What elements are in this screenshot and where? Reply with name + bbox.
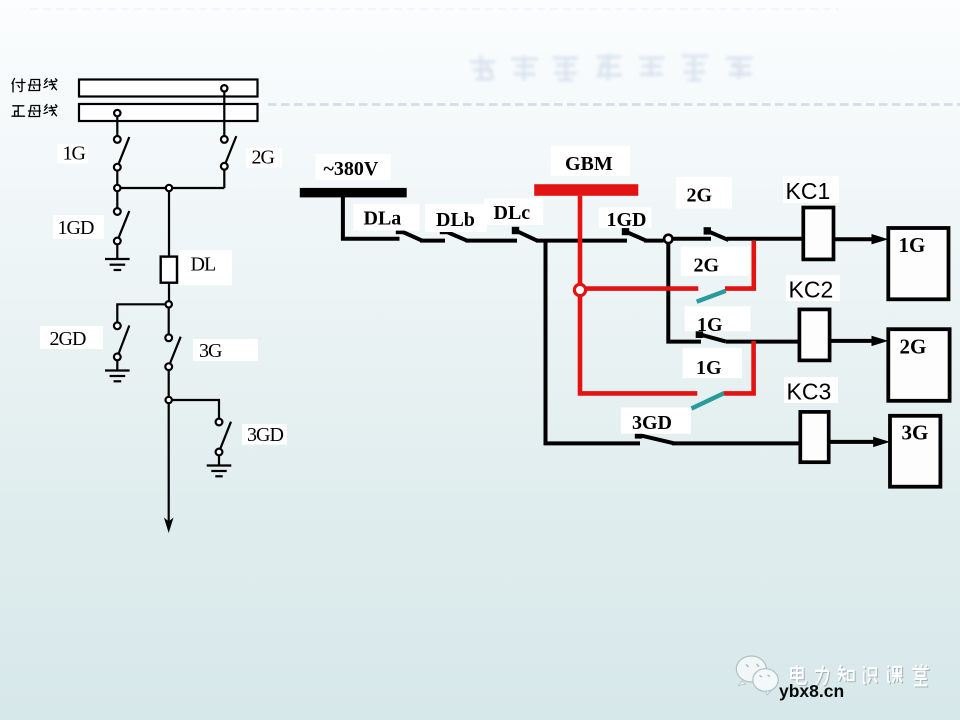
node D junction above feeder (166, 397, 172, 403)
wire from 380V bus (343, 196, 400, 239)
node B junction middle (166, 185, 172, 191)
wire 3GD contact to KC3 (672, 441, 800, 445)
disconnector 1G (114, 136, 129, 185)
svg-text:KC3: KC3 (787, 379, 832, 405)
breaker contact DLb (440, 227, 468, 241)
drop wire from node to row 2 (668, 243, 701, 342)
svg-text:KC2: KC2 (789, 277, 834, 303)
label 3GD (242, 424, 287, 446)
contact 2G row1 (704, 227, 729, 240)
label 1GD (53, 215, 104, 239)
label KC1 (783, 176, 839, 204)
disconnector 3G (165, 334, 180, 396)
node on main bus (114, 110, 120, 116)
red row A stub and riser (725, 241, 754, 289)
wire 1G contact to KC2 (726, 340, 800, 344)
contact 1G row2 (696, 331, 726, 342)
arrowhead row2 (872, 336, 889, 346)
wire KC2 to arrow (830, 339, 874, 343)
branch wire to 3GD (172, 400, 219, 419)
breaker contact DLc (512, 227, 538, 241)
node on aux bus (221, 85, 227, 91)
label DL (179, 250, 232, 285)
label 2G (246, 147, 282, 169)
label 3G (193, 339, 258, 362)
label 1G upper (685, 306, 751, 336)
svg-text:3GD: 3GD (247, 424, 283, 446)
faint top dashed line (30, 8, 838, 10)
earthing switch 1GD (114, 208, 129, 259)
earthing switch 3GD (216, 419, 231, 466)
red stem from GBM (578, 196, 583, 284)
svg-text:DLc: DLc (494, 202, 531, 224)
bus bar 正母线 (main bus) (79, 104, 258, 121)
svg-text:DLb: DLb (436, 209, 475, 231)
dashed separator line (268, 103, 960, 106)
svg-text:1GD: 1GD (607, 209, 647, 231)
node junction circle (664, 235, 672, 243)
wire 2G contact to KC1 (727, 237, 803, 241)
NC contact blade 1G (teal) (692, 393, 724, 408)
svg-text:3G: 3G (902, 421, 929, 445)
tie wire between feeders (121, 187, 225, 189)
svg-text:DLa: DLa (364, 208, 402, 230)
ground for 2GD (105, 371, 130, 382)
ground for 1GD (105, 259, 130, 270)
label DLc (484, 198, 543, 225)
wire down to 1GD (116, 191, 118, 208)
relay coil KC2 (799, 309, 829, 360)
red node junction (574, 284, 585, 295)
label ~380V (315, 154, 391, 180)
label 1G lower (683, 348, 742, 379)
red stem below node (580, 297, 697, 394)
svg-text:2G: 2G (694, 255, 720, 277)
load box 3G (890, 416, 940, 487)
wire node B down to DL (168, 191, 170, 256)
disconnector 2G (221, 136, 236, 188)
node C junction under DL (166, 301, 172, 307)
wechat icon (736, 656, 778, 695)
label KC2 (786, 275, 840, 303)
GBM red closing bus (534, 184, 638, 196)
wire KC1 to arrow (834, 237, 875, 241)
svg-text:DL: DL (191, 254, 216, 276)
label 2GD (40, 326, 103, 350)
svg-text:~380V: ~380V (324, 158, 379, 180)
svg-text:3G: 3G (199, 340, 222, 362)
wire DLa-DLb (420, 239, 445, 243)
label DLa (353, 204, 419, 231)
node A junction under 1G (114, 185, 120, 191)
svg-text:3GD: 3GD (632, 412, 672, 434)
svg-text:1GD: 1GD (58, 217, 94, 239)
branch wire to 2GD (117, 304, 165, 322)
label KC3 (784, 377, 838, 405)
label 3GD right (621, 408, 691, 435)
drop wire to row 3 (546, 241, 641, 444)
earthing switch 2GD (114, 322, 129, 370)
label 1GD (599, 208, 652, 232)
NC contact blade 2G (teal) (697, 291, 726, 302)
svg-text:1G: 1G (696, 357, 722, 379)
wire from main bus down to 1G (116, 116, 118, 136)
svg-text:2GD: 2GD (50, 328, 86, 350)
label 1G (57, 143, 88, 165)
svg-text:ybx8.cn: ybx8.cn (779, 681, 844, 701)
label GBM (551, 146, 630, 176)
wire node to 2G contact (674, 237, 712, 241)
label DLb (425, 204, 487, 232)
svg-text:1G: 1G (63, 143, 86, 165)
circuit breaker DL (161, 257, 177, 283)
breaker contact DLa (396, 227, 423, 241)
label 付母线 (12, 79, 57, 93)
svg-text:2G: 2G (900, 335, 927, 359)
svg-text:GBM: GBM (565, 153, 613, 175)
label 正母线 (12, 105, 57, 117)
bus bar 付母线 (auxiliary bus) (79, 80, 258, 97)
label 2G row1 (676, 177, 732, 209)
contact 3GD row3 (635, 431, 674, 443)
wire DLc to 1GD (536, 239, 627, 243)
watermark title text (blurred) (470, 54, 753, 81)
red row A horizontal (587, 286, 699, 291)
wire KC3 to arrow (829, 440, 875, 444)
red row B stub and riser (723, 341, 753, 393)
380V supply bus (300, 188, 407, 198)
relay coil KC3 (800, 412, 828, 462)
load box 1G (888, 228, 948, 299)
feeder arrowhead (164, 518, 174, 534)
relay coil KC1 (803, 208, 833, 260)
feeder wire with arrow (168, 403, 170, 528)
svg-text:1G: 1G (697, 314, 723, 336)
wire 1GD to node (644, 239, 664, 243)
load box 2G (888, 329, 949, 401)
wire from aux bus down to 2G (223, 92, 225, 137)
ground for 3GD (207, 466, 232, 477)
svg-text:2G: 2G (687, 185, 713, 207)
wire DLb-DLc (466, 239, 518, 243)
svg-text:KC1: KC1 (786, 178, 831, 204)
svg-text:1G: 1G (899, 233, 926, 257)
wire node C down to 3G (168, 308, 170, 335)
arrowhead row1 (872, 234, 889, 244)
contact 1GD (622, 228, 646, 241)
watermark text 电力知识课堂 (791, 664, 930, 686)
label 2G NC (681, 247, 750, 277)
arrowhead row3 (873, 437, 890, 447)
wire DL down to node C (168, 283, 170, 301)
svg-text:2G: 2G (252, 147, 275, 169)
